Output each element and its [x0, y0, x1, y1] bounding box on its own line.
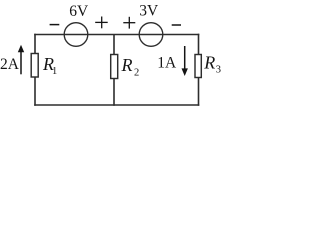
resistor R3: [195, 55, 201, 78]
svg-text:6V: 6V: [69, 3, 89, 20]
polarity minus right of 3V: [172, 24, 181, 26]
label R3: [203, 53, 221, 76]
wire top horizontal: [34, 34, 199, 36]
wire right vertical below R3: [198, 78, 200, 106]
label R1: [42, 54, 57, 77]
label R2: [121, 55, 140, 79]
polarity plus left of 3V: [123, 17, 135, 29]
svg-text:2: 2: [134, 68, 139, 79]
voltage source 3V circle: [139, 23, 163, 47]
wire middle vertical branch: [113, 35, 115, 55]
svg-text:1: 1: [52, 66, 57, 77]
polarity minus left of 6V: [50, 24, 60, 26]
svg-text:3: 3: [216, 65, 221, 76]
svg-text:R: R: [121, 55, 133, 75]
wire left vertical branch: [34, 34, 36, 54]
wire middle vertical below R2: [113, 79, 115, 106]
voltage source 6V circle: [64, 23, 88, 47]
svg-text:R: R: [203, 53, 215, 73]
svg-text:2A: 2A: [0, 56, 20, 73]
current arrow 1A (down): [182, 46, 188, 76]
svg-text:3V: 3V: [139, 3, 159, 20]
polarity plus right of 6V: [95, 17, 108, 29]
current arrow 2A (up): [18, 45, 24, 75]
resistor R2: [111, 55, 118, 79]
wire left vertical below R1: [34, 77, 36, 106]
wire bottom horizontal: [34, 104, 199, 106]
svg-text:1A: 1A: [157, 55, 177, 72]
resistor R1: [31, 54, 38, 78]
wire right vertical branch: [198, 34, 200, 55]
